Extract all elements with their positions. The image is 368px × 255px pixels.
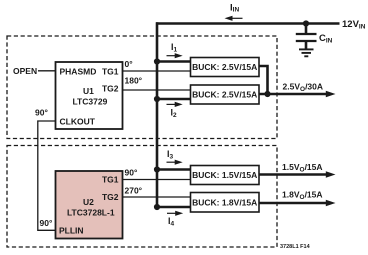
wire BUCK1 output [259, 66, 268, 94]
svg-text:TG1: TG1 [102, 66, 119, 76]
svg-text:0°: 0° [125, 59, 134, 69]
svg-text:PLLIN: PLLIN [59, 226, 84, 236]
arrow I1 (points right) [167, 53, 183, 58]
junction dot bus-BUCK3 [154, 166, 160, 172]
wire TG2 U1 to BUCK2 [123, 89, 191, 91]
dashed box U1 phase group [7, 36, 277, 139]
svg-text:90°: 90° [125, 168, 138, 178]
junction dot CIN tap [303, 20, 309, 26]
dashed box U2 phase group [7, 146, 277, 248]
wire TG1 U2 to BUCK3 [123, 179, 191, 181]
svg-text:90°: 90° [40, 218, 53, 228]
svg-text:U2: U2 [83, 197, 94, 207]
junction dot bus-BUCK1 [154, 58, 160, 64]
wire TG1 U1 to BUCK1 [123, 70, 191, 72]
svg-text:TG1: TG1 [102, 174, 119, 184]
wire 12V vertical bus [156, 22, 159, 208]
wire 1.5V output with arrow [259, 171, 336, 177]
svg-text:BUCK: 2.5V/15A: BUCK: 2.5V/15A [192, 62, 257, 72]
svg-text:CLKOUT: CLKOUT [60, 116, 96, 126]
wire bus to BUCK1 [157, 60, 191, 63]
capacitor CIN [296, 25, 317, 49]
junction dot 2.5V outputs [264, 91, 270, 97]
buck converter BUCK4 1.8V/15A [191, 193, 260, 213]
svg-text:BUCK: 1.5V/15A: BUCK: 1.5V/15A [192, 170, 257, 180]
junction dot bus-BUCK4 [154, 204, 160, 210]
svg-text:LTC3728L-1: LTC3728L-1 [67, 207, 115, 217]
svg-text:BUCK: 2.5V/15A: BUCK: 2.5V/15A [192, 90, 257, 100]
svg-text:TG2: TG2 [102, 83, 119, 93]
svg-text:BUCK: 1.8V/15A: BUCK: 1.8V/15A [192, 198, 257, 208]
arrow I3 (points right) [167, 160, 183, 165]
svg-text:U1: U1 [83, 86, 94, 96]
wire bus to BUCK4 [157, 206, 191, 209]
controller U2 LTC3728L-1 box [56, 171, 123, 239]
svg-text:180°: 180° [125, 76, 143, 86]
svg-text:3728L1 F14: 3728L1 F14 [280, 244, 311, 250]
wire CLKOUT to PLLIN [38, 121, 56, 230]
wire 2.5V output with arrow [259, 91, 336, 97]
controller U1 LTC3729 box [56, 62, 123, 129]
svg-text:90°: 90° [35, 108, 48, 118]
wire bus to BUCK3 [157, 168, 191, 171]
buck converter BUCK2 2.5V/15A [191, 85, 260, 104]
wire 12V input rail [156, 22, 340, 25]
arrow I2 (points right) [167, 102, 183, 107]
wire OPEN to PHASMD [38, 70, 56, 72]
arrow IIN (points left) [225, 16, 243, 21]
svg-text:TG2: TG2 [102, 192, 119, 202]
svg-text:PHASMD: PHASMD [60, 66, 97, 76]
ground symbol CIN [299, 49, 314, 56]
wire 1.8V output with arrow [259, 200, 336, 206]
svg-text:270°: 270° [125, 186, 143, 196]
arrow I4 (points right) [167, 211, 183, 216]
svg-text:LTC3729: LTC3729 [73, 97, 108, 107]
wire bus to BUCK2 [157, 98, 191, 101]
wire TG2 U2 to BUCK4 [123, 196, 191, 198]
buck converter BUCK1 2.5V/15A [191, 58, 260, 77]
buck converter BUCK3 1.5V/15A [191, 166, 260, 185]
svg-text:OPEN: OPEN [13, 66, 37, 76]
junction dot bus-BUCK2 [154, 96, 160, 102]
